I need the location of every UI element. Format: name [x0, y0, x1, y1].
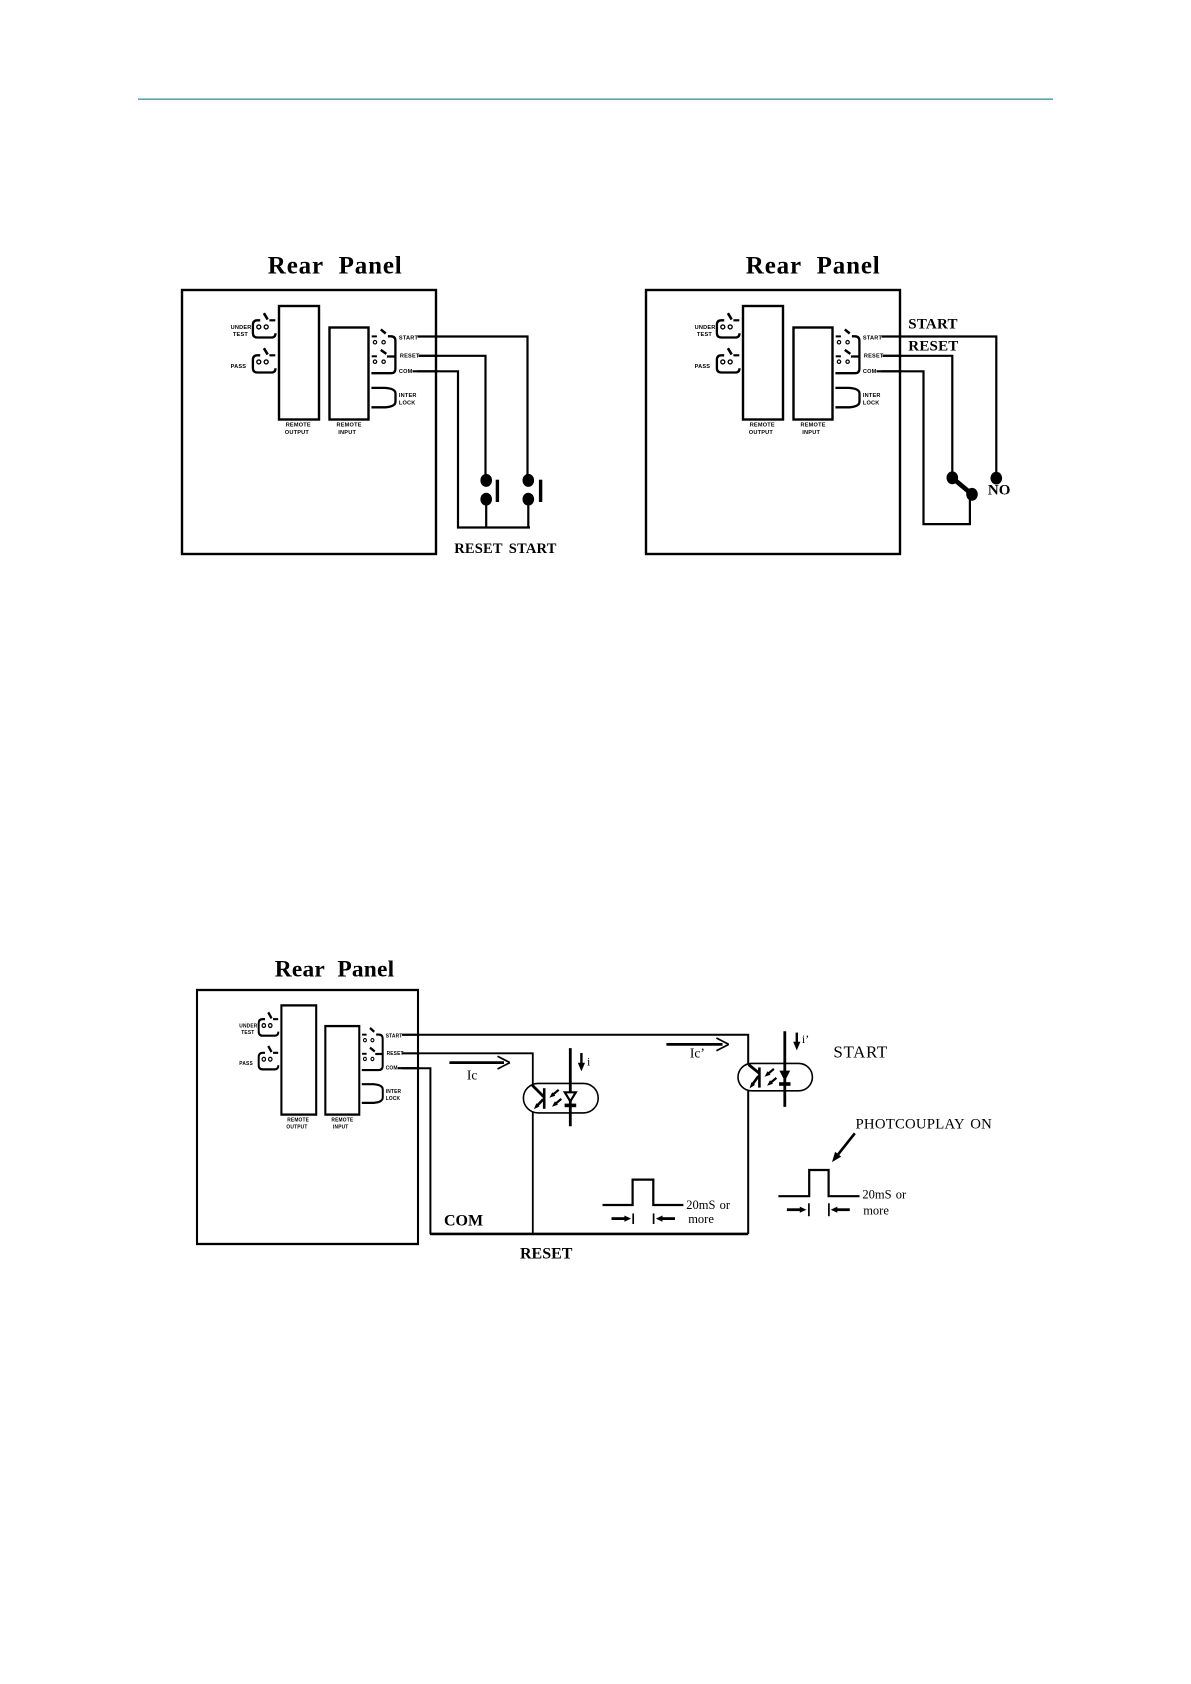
- svg-text:START: START: [908, 317, 957, 333]
- current arrow i': [793, 1033, 800, 1051]
- svg-text:INTER: INTER: [863, 393, 881, 399]
- wire: COM down: [402, 1068, 431, 1234]
- under-test output jack P3: [259, 1012, 279, 1035]
- svg-text:RESET: RESET: [454, 541, 503, 557]
- svg-text:OUTPUT: OUTPUT: [286, 1124, 308, 1130]
- svg-text:START: START: [386, 1033, 403, 1039]
- remote output connector body P2: [743, 306, 783, 420]
- svg-text:REMOTE: REMOTE: [801, 423, 826, 429]
- svg-text:INTER: INTER: [399, 393, 417, 399]
- svg-text:OUTPUT: OUTPUT: [749, 430, 774, 436]
- under-test label P1: [231, 325, 252, 338]
- wire: RESET to selector: [883, 356, 953, 472]
- remote input label P3: [331, 1117, 353, 1131]
- interlock jack P3: [362, 1084, 383, 1103]
- svg-text:START: START: [399, 335, 419, 341]
- interlock label P3: [386, 1089, 402, 1102]
- svg-text:COM: COM: [399, 369, 413, 375]
- photocoupler PC2 body: [738, 1063, 812, 1090]
- remote input pins jack P1: [371, 329, 395, 373]
- svg-text:RESET: RESET: [400, 354, 420, 360]
- selector lever: [952, 478, 972, 495]
- svg-text:UNDER: UNDER: [239, 1023, 257, 1029]
- wire: START to selector: [882, 337, 997, 473]
- svg-text:PASS: PASS: [695, 364, 711, 370]
- under-test output jack P2: [717, 313, 740, 337]
- pin stub wires P1: [413, 337, 438, 372]
- remote input label P2: [801, 423, 826, 437]
- under-test label P3: [239, 1023, 257, 1036]
- interlock label P2: [863, 393, 881, 406]
- svg-text:Ic: Ic: [467, 1068, 478, 1083]
- svg-text:INPUT: INPUT: [333, 1124, 349, 1130]
- svg-text:PASS: PASS: [239, 1061, 253, 1067]
- PC1 light arrows: [549, 1090, 561, 1107]
- push button SW1 (RESET): [480, 474, 499, 528]
- PC2 LED: [779, 1031, 790, 1107]
- remote output connector body P1: [279, 306, 319, 420]
- svg-text:Rear Panel: Rear Panel: [746, 253, 881, 280]
- selector switch pole: [966, 488, 978, 501]
- svg-text:PHOTCOUPLAY ON: PHOTCOUPLAY ON: [856, 1116, 993, 1132]
- PC1 phototransistor: [532, 1085, 544, 1109]
- pass output jack P2: [717, 348, 740, 372]
- remote input connector body P3: [325, 1026, 359, 1115]
- selector switch contact START (NO): [991, 472, 1003, 485]
- svg-text:REMOTE: REMOTE: [337, 423, 362, 429]
- selector switch contact RESET: [947, 471, 959, 484]
- svg-text:TEST: TEST: [697, 332, 712, 338]
- wire: COM return to buttons: [418, 371, 531, 527]
- current arrow i: [578, 1053, 585, 1071]
- remote output label P2: [749, 423, 775, 437]
- svg-text:RESET: RESET: [864, 354, 884, 360]
- pulse waveform 1: [603, 1180, 684, 1205]
- svg-text:RESET: RESET: [908, 339, 958, 355]
- top rule: [138, 98, 1053, 100]
- svg-text:i’: i’: [802, 1032, 809, 1046]
- remote output label P1: [285, 423, 311, 437]
- interlock jack P2: [835, 388, 859, 407]
- svg-text:REMOTE: REMOTE: [287, 1117, 309, 1123]
- wire: START to push button SW2: [418, 337, 528, 475]
- remote output label P3: [286, 1117, 309, 1131]
- svg-text:UNDER: UNDER: [231, 325, 252, 331]
- current arrow Ic: [449, 1056, 510, 1069]
- remote input connector body P2: [794, 328, 833, 420]
- under-test label P2: [695, 325, 716, 338]
- svg-text:COM: COM: [386, 1066, 398, 1072]
- svg-text:LOCK: LOCK: [863, 401, 880, 407]
- svg-text:INTER: INTER: [386, 1089, 402, 1095]
- svg-text:START: START: [833, 1042, 887, 1061]
- PC1 LED: [565, 1048, 577, 1126]
- wire: START to photocoupler PC2: [402, 1035, 748, 1234]
- remote input label P1: [337, 423, 362, 437]
- svg-text:Ic’: Ic’: [690, 1046, 705, 1061]
- pass output jack P1: [253, 348, 276, 372]
- svg-text:Rear Panel: Rear Panel: [268, 253, 403, 280]
- current arrow Ic': [666, 1038, 728, 1051]
- svg-text:more: more: [688, 1212, 714, 1226]
- pass output jack P3: [259, 1046, 279, 1069]
- rear panel box P1: [182, 290, 436, 554]
- svg-text:REMOTE: REMOTE: [286, 423, 311, 429]
- remote input pins jack P3: [362, 1028, 383, 1070]
- pointer arrow to pulse: [832, 1133, 855, 1162]
- pulse 1 width marks: [612, 1214, 676, 1225]
- svg-text:TEST: TEST: [241, 1030, 255, 1036]
- wire: RESET to push button SW1: [419, 356, 486, 475]
- PC2 light arrows: [765, 1069, 777, 1086]
- svg-text:COM: COM: [863, 369, 877, 375]
- svg-text:20mS or: 20mS or: [862, 1188, 907, 1202]
- svg-text:RESET: RESET: [520, 1245, 573, 1262]
- svg-text:UNDER: UNDER: [695, 325, 716, 331]
- interlock label P1: [399, 393, 417, 406]
- svg-text:i: i: [587, 1055, 591, 1069]
- svg-text:LOCK: LOCK: [386, 1096, 401, 1102]
- remote input pins jack P2: [835, 329, 859, 373]
- push button SW2 (START): [523, 474, 543, 528]
- svg-text:REMOTE: REMOTE: [331, 1117, 353, 1123]
- svg-text:Rear Panel: Rear Panel: [275, 956, 395, 982]
- wire: COM to selector pole: [882, 371, 970, 524]
- pin stub wires P2: [877, 337, 902, 372]
- wire: bottom common rail: [430, 1233, 748, 1236]
- remote input connector body P1: [330, 328, 369, 420]
- svg-text:INPUT: INPUT: [802, 430, 820, 436]
- wire: RESET through photocoupler PC1: [402, 1053, 533, 1234]
- svg-text:PASS: PASS: [231, 364, 247, 370]
- rear panel box P3: [197, 990, 418, 1244]
- svg-text:START: START: [509, 541, 557, 557]
- rear panel box P2: [646, 290, 900, 554]
- PC2 phototransistor: [749, 1065, 760, 1089]
- svg-text:COM: COM: [444, 1213, 483, 1230]
- remote output connector body P3: [281, 1005, 316, 1114]
- svg-text:START: START: [863, 335, 883, 341]
- svg-text:OUTPUT: OUTPUT: [285, 430, 310, 436]
- under-test output jack P1: [253, 313, 276, 337]
- svg-text:20mS or: 20mS or: [686, 1198, 731, 1212]
- pulse waveform 2: [778, 1170, 859, 1196]
- svg-text:INPUT: INPUT: [338, 430, 356, 436]
- svg-text:LOCK: LOCK: [399, 401, 416, 407]
- svg-text:more: more: [863, 1204, 889, 1218]
- pulse 2 width marks: [787, 1203, 850, 1216]
- svg-text:REMOTE: REMOTE: [750, 423, 775, 429]
- pin stub wires P3: [398, 1035, 420, 1068]
- svg-text:NO: NO: [988, 483, 1011, 499]
- svg-text:RESET: RESET: [387, 1051, 405, 1057]
- interlock jack P1: [371, 388, 395, 407]
- photocoupler PC1 body: [523, 1083, 598, 1113]
- svg-text:TEST: TEST: [233, 332, 248, 338]
